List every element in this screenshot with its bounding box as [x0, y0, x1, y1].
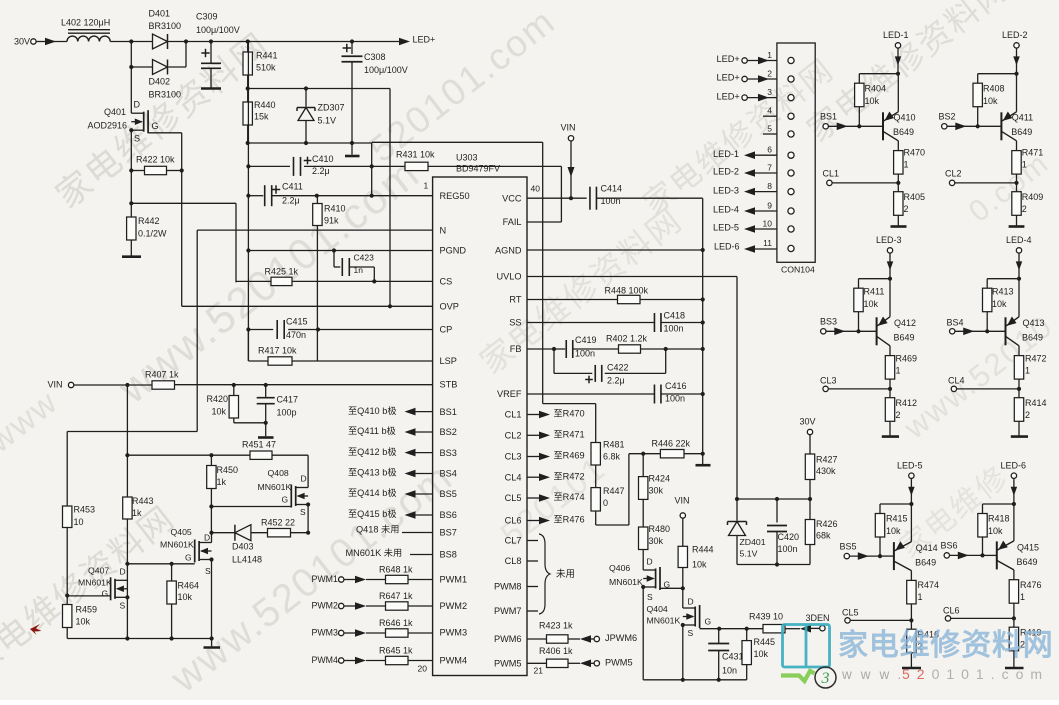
- svg-text:D: D: [204, 533, 210, 543]
- svg-text:1n: 1n: [354, 265, 364, 275]
- svg-text:PWM2: PWM2: [312, 600, 338, 610]
- svg-text:VCC: VCC: [502, 193, 522, 203]
- svg-text:B649: B649: [915, 558, 936, 568]
- svg-text:CL5: CL5: [505, 493, 522, 503]
- svg-text:LED-6: LED-6: [714, 242, 740, 252]
- svg-text:家电维修资料网: 家电维修资料网: [838, 629, 1054, 662]
- svg-text:R418: R418: [988, 514, 1010, 524]
- svg-text:R422 10k: R422 10k: [136, 155, 175, 165]
- svg-text:5.1V: 5.1V: [740, 548, 758, 558]
- svg-text:C411: C411: [282, 182, 303, 192]
- svg-text:Q410: Q410: [894, 113, 916, 123]
- svg-text:R469: R469: [896, 354, 918, 364]
- svg-text:G: G: [282, 495, 289, 505]
- svg-text:PWM8: PWM8: [494, 582, 522, 592]
- svg-text:BS1: BS1: [440, 407, 457, 417]
- svg-text:1: 1: [1022, 160, 1027, 170]
- svg-text:AOD2916: AOD2916: [88, 121, 128, 131]
- svg-text:Q412: Q412: [894, 318, 916, 328]
- svg-text:R415: R415: [886, 514, 908, 524]
- svg-text:R476: R476: [1020, 580, 1042, 590]
- svg-text:100n: 100n: [575, 349, 595, 359]
- svg-text:LED-2: LED-2: [1002, 30, 1028, 40]
- svg-text:C423: C423: [354, 253, 375, 263]
- svg-text:G: G: [185, 553, 192, 563]
- svg-text:CL7: CL7: [505, 536, 522, 546]
- svg-text:R414: R414: [1025, 398, 1047, 408]
- svg-text:至R472: 至R472: [554, 471, 585, 481]
- svg-text:1: 1: [904, 160, 909, 170]
- svg-text:MN601K: MN601K: [78, 577, 112, 587]
- svg-text:10k: 10k: [865, 96, 880, 106]
- svg-text:www.: www.: [841, 667, 910, 682]
- svg-text:520101.com: 520101.com: [902, 666, 1049, 682]
- svg-text:VIN: VIN: [48, 380, 63, 390]
- svg-text:10k: 10k: [76, 617, 91, 627]
- svg-text:BS5: BS5: [440, 489, 457, 499]
- svg-text:R464: R464: [178, 581, 200, 591]
- svg-text:D: D: [647, 557, 653, 567]
- svg-text:L402 120μH: L402 120μH: [61, 18, 110, 28]
- svg-text:CL3: CL3: [505, 452, 522, 462]
- svg-text:U303: U303: [456, 153, 478, 163]
- svg-text:AGND: AGND: [495, 246, 522, 256]
- svg-text:R448 100k: R448 100k: [605, 286, 649, 296]
- svg-text:至Q412 b极: 至Q412 b极: [348, 446, 397, 457]
- svg-text:BS3: BS3: [440, 448, 457, 458]
- svg-text:5.1V: 5.1V: [318, 116, 337, 126]
- svg-text:BS2: BS2: [440, 427, 457, 437]
- svg-text:R450: R450: [217, 465, 239, 475]
- svg-text:PWM4: PWM4: [440, 656, 468, 666]
- svg-text:BD9479FV: BD9479FV: [456, 164, 500, 174]
- svg-text:91k: 91k: [324, 216, 339, 226]
- svg-text:VIN: VIN: [675, 496, 690, 506]
- svg-text:REG50: REG50: [440, 191, 470, 201]
- svg-text:C416: C416: [665, 381, 687, 391]
- svg-text:1: 1: [918, 592, 923, 602]
- svg-text:R431 10k: R431 10k: [396, 150, 435, 160]
- svg-text:100p: 100p: [277, 408, 297, 418]
- svg-text:R470: R470: [904, 148, 926, 158]
- svg-text:R407 1k: R407 1k: [145, 370, 179, 380]
- svg-text:BR3100: BR3100: [149, 90, 182, 100]
- svg-text:LED-5: LED-5: [713, 223, 739, 233]
- svg-text:40: 40: [531, 184, 541, 194]
- svg-text:1: 1: [424, 181, 429, 191]
- svg-text:5: 5: [767, 124, 772, 134]
- svg-text:PWM3: PWM3: [440, 628, 468, 638]
- svg-text:PWM1: PWM1: [312, 574, 338, 584]
- svg-text:C309: C309: [196, 12, 218, 22]
- svg-text:2: 2: [1022, 204, 1027, 214]
- svg-text:D: D: [301, 474, 307, 484]
- svg-text:10k: 10k: [886, 526, 901, 536]
- svg-text:R447: R447: [603, 486, 625, 496]
- svg-text:R645 1k: R645 1k: [379, 646, 413, 656]
- svg-text:RT: RT: [509, 295, 521, 305]
- svg-text:CL3: CL3: [820, 376, 837, 386]
- svg-text:PGND: PGND: [440, 246, 467, 256]
- svg-text:LSP: LSP: [440, 356, 457, 366]
- svg-text:100μ/100V: 100μ/100V: [364, 65, 408, 75]
- svg-text:D: D: [688, 597, 694, 607]
- svg-text:PWM4: PWM4: [312, 655, 338, 665]
- svg-text:1: 1: [1025, 366, 1030, 376]
- svg-text:CL1: CL1: [505, 410, 522, 420]
- svg-text:Q418 未用: Q418 未用: [356, 524, 399, 535]
- svg-text:LED+: LED+: [413, 35, 436, 45]
- svg-text:10k: 10k: [988, 526, 1003, 536]
- svg-text:R439 10: R439 10: [749, 612, 783, 622]
- svg-text:2: 2: [767, 69, 772, 79]
- svg-text:至R471: 至R471: [554, 429, 585, 439]
- svg-text:2: 2: [904, 204, 909, 214]
- svg-text:G: G: [705, 617, 712, 627]
- svg-text:30k: 30k: [649, 536, 664, 546]
- svg-text:STB: STB: [440, 380, 458, 390]
- svg-text:R427: R427: [816, 455, 838, 465]
- svg-text:SS: SS: [509, 318, 521, 328]
- svg-text:LED+: LED+: [717, 54, 740, 64]
- svg-text:LED-1: LED-1: [883, 30, 909, 40]
- svg-text:LL4148: LL4148: [232, 555, 262, 565]
- svg-text:R404: R404: [865, 84, 887, 94]
- svg-text:R444: R444: [692, 545, 714, 555]
- svg-text:BS1: BS1: [820, 112, 837, 122]
- svg-text:CL1: CL1: [823, 169, 840, 179]
- svg-text:LED-4: LED-4: [713, 205, 739, 215]
- svg-text:JPWM6: JPWM6: [605, 633, 637, 643]
- svg-text:D: D: [120, 567, 126, 577]
- svg-text:PWM2: PWM2: [440, 601, 468, 611]
- svg-text:至Q414 b极: 至Q414 b极: [348, 487, 397, 498]
- svg-text:C422: C422: [607, 363, 629, 373]
- svg-text:10k: 10k: [754, 649, 769, 659]
- svg-text:R425 1k: R425 1k: [265, 267, 299, 277]
- svg-text:R453: R453: [74, 505, 96, 515]
- svg-text:CL2: CL2: [945, 169, 962, 179]
- svg-text:R417 10k: R417 10k: [258, 346, 297, 356]
- svg-text:R426: R426: [816, 519, 838, 529]
- svg-text:B649: B649: [894, 333, 915, 343]
- svg-text:R413: R413: [992, 287, 1014, 297]
- svg-text:CL4: CL4: [505, 472, 522, 482]
- svg-text:Q405: Q405: [171, 527, 192, 537]
- svg-text:LED-3: LED-3: [713, 185, 739, 195]
- svg-text:Q408: Q408: [268, 468, 289, 478]
- svg-text:9: 9: [767, 201, 772, 211]
- svg-text:4: 4: [767, 106, 772, 116]
- svg-text:LED-3: LED-3: [876, 235, 902, 245]
- svg-text:20: 20: [418, 664, 428, 674]
- svg-text:Q413: Q413: [1023, 318, 1045, 328]
- svg-text:1k: 1k: [132, 508, 142, 518]
- svg-text:1: 1: [896, 366, 901, 376]
- svg-text:至Q413 b极: 至Q413 b极: [348, 467, 397, 478]
- svg-text:ZD401: ZD401: [740, 537, 766, 547]
- svg-text:3: 3: [767, 87, 772, 97]
- svg-text:N: N: [440, 225, 447, 235]
- svg-text:510k: 510k: [256, 63, 276, 73]
- svg-text:R459: R459: [76, 605, 98, 615]
- svg-text:Q414: Q414: [916, 543, 938, 553]
- svg-text:CON104: CON104: [781, 264, 815, 274]
- svg-text:LED+: LED+: [717, 73, 740, 83]
- svg-text:R481: R481: [603, 440, 625, 450]
- svg-text:100μ/100V: 100μ/100V: [196, 25, 240, 35]
- svg-text:Q407: Q407: [88, 565, 109, 575]
- svg-text:LED-4: LED-4: [1006, 235, 1032, 245]
- svg-text:LED-2: LED-2: [713, 167, 739, 177]
- svg-text:LED+: LED+: [717, 91, 740, 101]
- svg-text:D402: D402: [149, 77, 171, 87]
- svg-text:6: 6: [767, 145, 772, 155]
- svg-text:CL5: CL5: [842, 608, 859, 618]
- svg-text:C418: C418: [664, 311, 686, 321]
- svg-text:BS7: BS7: [440, 528, 457, 538]
- svg-text:R474: R474: [918, 580, 940, 590]
- svg-text:6.8k: 6.8k: [603, 452, 621, 462]
- svg-text:C419: C419: [575, 335, 597, 345]
- svg-text:PWM6: PWM6: [494, 634, 522, 644]
- svg-text:至Q410 b极: 至Q410 b极: [348, 405, 397, 416]
- svg-text:至R474: 至R474: [554, 492, 585, 502]
- svg-text:C308: C308: [364, 52, 386, 62]
- svg-text:LED-5: LED-5: [897, 461, 923, 471]
- svg-text:VREF: VREF: [497, 389, 522, 399]
- svg-text:BS5: BS5: [840, 542, 857, 552]
- svg-text:R423 1k: R423 1k: [539, 621, 573, 631]
- svg-text:Q415: Q415: [1017, 543, 1039, 553]
- svg-text:D401: D401: [149, 9, 171, 19]
- svg-text:MN601K: MN601K: [258, 482, 292, 492]
- svg-text:Q404: Q404: [647, 604, 668, 614]
- svg-text:R440: R440: [254, 100, 276, 110]
- svg-text:10k: 10k: [692, 560, 707, 570]
- svg-text:PWM7: PWM7: [494, 606, 522, 616]
- svg-text:100n: 100n: [601, 196, 621, 206]
- svg-text:R412: R412: [896, 398, 918, 408]
- svg-text:至Q415 b极: 至Q415 b极: [348, 508, 397, 519]
- svg-text:B649: B649: [1022, 333, 1043, 343]
- svg-text:CS: CS: [440, 277, 453, 287]
- svg-text:R647 1k: R647 1k: [379, 591, 413, 601]
- svg-text:G: G: [664, 580, 671, 590]
- svg-text:R451 47: R451 47: [242, 440, 276, 450]
- svg-text:1k: 1k: [217, 477, 227, 487]
- svg-text:10: 10: [763, 219, 773, 229]
- svg-text:C414: C414: [601, 184, 623, 194]
- svg-text:CL8: CL8: [505, 556, 522, 566]
- svg-text:R452 22: R452 22: [261, 518, 295, 528]
- svg-text:R445: R445: [754, 637, 776, 647]
- svg-text:D: D: [134, 100, 141, 110]
- svg-text:10k: 10k: [178, 592, 193, 602]
- svg-text:至R476: 至R476: [554, 515, 585, 525]
- svg-text:R648 1k: R648 1k: [379, 565, 413, 575]
- svg-text:10n: 10n: [722, 666, 737, 676]
- svg-text:OVP: OVP: [440, 302, 459, 312]
- svg-text:BS2: BS2: [939, 112, 956, 122]
- svg-text:S: S: [647, 592, 653, 602]
- svg-text:2: 2: [1025, 410, 1030, 420]
- svg-text:R480: R480: [649, 524, 671, 534]
- svg-text:3: 3: [821, 670, 830, 687]
- svg-text:100n: 100n: [665, 394, 685, 404]
- svg-text:R471: R471: [1022, 148, 1044, 158]
- svg-text:C431: C431: [722, 652, 744, 662]
- svg-text:R411: R411: [864, 287, 885, 297]
- svg-text:UVLO: UVLO: [496, 272, 521, 282]
- svg-text:R406 1k: R406 1k: [539, 646, 573, 656]
- svg-text:1: 1: [1020, 592, 1025, 602]
- svg-text:MN601K: MN601K: [647, 615, 681, 625]
- svg-text:R408: R408: [983, 84, 1005, 94]
- svg-text:C417: C417: [277, 395, 299, 405]
- svg-text:30V: 30V: [14, 37, 30, 47]
- svg-text:10k: 10k: [992, 299, 1007, 309]
- svg-text:未用: 未用: [556, 568, 575, 580]
- svg-text:7: 7: [767, 163, 772, 173]
- svg-text:S: S: [134, 134, 140, 144]
- svg-text:CL2: CL2: [505, 431, 522, 441]
- svg-text:21: 21: [534, 666, 544, 676]
- svg-text:Q401: Q401: [104, 107, 126, 117]
- svg-text:10: 10: [74, 517, 84, 527]
- svg-text:1: 1: [767, 50, 772, 60]
- svg-text:FB: FB: [510, 344, 522, 354]
- svg-text:LED-1: LED-1: [713, 149, 739, 159]
- svg-text:BR3100: BR3100: [149, 21, 182, 31]
- svg-text:10k: 10k: [212, 407, 227, 417]
- svg-text:PWM5: PWM5: [605, 658, 633, 668]
- svg-text:R409: R409: [1022, 192, 1044, 202]
- svg-text:10k: 10k: [864, 299, 879, 309]
- svg-text:FAIL: FAIL: [503, 217, 522, 227]
- svg-text:BS3: BS3: [820, 317, 837, 327]
- svg-text:MN601K 未用: MN601K 未用: [346, 547, 403, 558]
- svg-text:S: S: [120, 601, 126, 611]
- svg-text:BS4: BS4: [440, 469, 457, 479]
- svg-text:BS4: BS4: [947, 318, 964, 328]
- svg-text:至Q411 b极: 至Q411 b极: [348, 425, 396, 436]
- svg-text:11: 11: [763, 238, 772, 248]
- svg-text:100n: 100n: [778, 544, 798, 554]
- svg-text:PWM3: PWM3: [312, 627, 338, 637]
- svg-text:BS6: BS6: [941, 541, 958, 551]
- svg-text:C410: C410: [312, 154, 334, 164]
- svg-text:R446 22k: R446 22k: [652, 439, 691, 449]
- svg-text:R442: R442: [138, 216, 160, 226]
- svg-text:8: 8: [767, 181, 772, 191]
- svg-text:R410: R410: [324, 204, 346, 214]
- svg-text:G: G: [152, 121, 159, 131]
- svg-text:R402 1.2k: R402 1.2k: [606, 334, 648, 344]
- svg-text:MN601K: MN601K: [160, 539, 194, 549]
- svg-text:2.2μ: 2.2μ: [312, 166, 330, 176]
- svg-text:PWM5: PWM5: [494, 659, 522, 669]
- svg-text:R424: R424: [649, 474, 671, 484]
- svg-text:MN601K: MN601K: [609, 577, 643, 587]
- svg-text:10k: 10k: [983, 96, 998, 106]
- svg-text:CL6: CL6: [943, 606, 960, 616]
- svg-text:S: S: [300, 507, 306, 517]
- svg-text:2.2μ: 2.2μ: [607, 376, 625, 386]
- svg-text:R443: R443: [132, 496, 154, 506]
- svg-text:至R470: 至R470: [554, 409, 585, 419]
- svg-text:R441: R441: [256, 51, 278, 61]
- svg-text:G: G: [102, 589, 109, 599]
- svg-text:C415: C415: [286, 317, 308, 327]
- svg-text:D403: D403: [232, 542, 254, 552]
- svg-text:C420: C420: [778, 532, 800, 542]
- svg-text:至R469: 至R469: [554, 451, 585, 461]
- svg-text:R646 1k: R646 1k: [379, 618, 413, 628]
- svg-text:B649: B649: [1017, 557, 1038, 567]
- svg-text:430k: 430k: [816, 466, 836, 476]
- svg-text:0: 0: [603, 498, 608, 508]
- svg-text:68k: 68k: [816, 531, 831, 541]
- svg-text:0.1/2W: 0.1/2W: [138, 229, 167, 239]
- svg-text:BS6: BS6: [440, 510, 457, 520]
- svg-text:VIN: VIN: [561, 123, 576, 133]
- svg-text:PWM1: PWM1: [440, 575, 468, 585]
- svg-text:CL6: CL6: [505, 516, 522, 526]
- svg-text:2.2μ: 2.2μ: [282, 196, 300, 206]
- svg-text:S: S: [205, 566, 211, 576]
- svg-text:S: S: [688, 628, 694, 638]
- svg-text:100n: 100n: [664, 324, 684, 334]
- svg-text:R405: R405: [904, 192, 926, 202]
- svg-text:R420: R420: [207, 394, 229, 404]
- svg-text:CL4: CL4: [948, 376, 965, 386]
- svg-text:R472: R472: [1025, 354, 1047, 364]
- svg-text:470n: 470n: [286, 330, 306, 340]
- svg-text:BS8: BS8: [440, 550, 457, 560]
- svg-text:ZD307: ZD307: [318, 103, 345, 113]
- svg-text:15k: 15k: [254, 112, 269, 122]
- svg-text:CP: CP: [440, 325, 453, 335]
- svg-text:30V: 30V: [800, 417, 816, 427]
- svg-text:B649: B649: [893, 127, 914, 137]
- svg-text:LED-6: LED-6: [1001, 461, 1027, 471]
- svg-text:30k: 30k: [649, 486, 664, 496]
- svg-text:Q411: Q411: [1012, 113, 1033, 123]
- svg-text:2: 2: [896, 410, 901, 420]
- svg-text:B649: B649: [1011, 127, 1032, 137]
- svg-text:Q406: Q406: [609, 563, 630, 573]
- svg-text:3DEN: 3DEN: [806, 613, 830, 623]
